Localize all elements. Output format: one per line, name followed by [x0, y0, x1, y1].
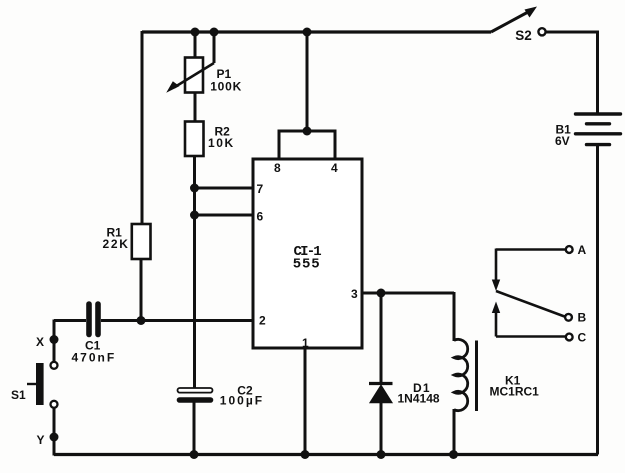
resistor R1	[132, 224, 151, 259]
node top rail vcc	[303, 28, 312, 37]
wire P1 wiper vertical	[213, 31, 216, 63]
wire S1 branch vertical	[53, 320, 56, 362]
wire relay coil bottom to rail	[453, 409, 456, 456]
battery B1	[576, 114, 621, 145]
node pin7 junction	[190, 184, 199, 193]
svg-text:B: B	[578, 311, 587, 325]
svg-text:1N4148: 1N4148	[398, 392, 440, 406]
wire bottom rail	[54, 453, 598, 456]
wire D1 bottom lead	[380, 402, 383, 456]
svg-text:470nF: 470nF	[72, 351, 117, 365]
IC CI-1 555 timer box	[253, 159, 362, 348]
potentiometer P1	[185, 58, 203, 93]
node X	[50, 335, 59, 344]
wire vcc drop to bracket	[306, 31, 309, 131]
svg-text:S1: S1	[11, 388, 26, 402]
svg-text:Y: Y	[37, 433, 45, 447]
wire R2 down through pins 7,6 to C2	[193, 155, 196, 388]
relay core bar	[475, 341, 478, 412]
wire battery to bottom right corner	[596, 146, 599, 455]
svg-text:MC1RC1: MC1RC1	[490, 385, 540, 399]
wire bracket over pins 8 and 4	[279, 131, 335, 159]
capacitor C1	[89, 304, 98, 335]
svg-text:100µF: 100µF	[220, 394, 264, 408]
svg-text:C: C	[578, 331, 587, 345]
terminal C	[566, 334, 573, 341]
svg-text:100K: 100K	[210, 80, 242, 94]
wire pin3 to relay corner	[362, 292, 454, 295]
svg-text:1: 1	[302, 336, 309, 350]
wire S2 to battery	[546, 32, 598, 113]
node K1 ground junction	[449, 450, 458, 459]
svg-text:555: 555	[293, 257, 321, 273]
wire left rail	[141, 31, 144, 224]
relay moving contact diagonal	[496, 291, 565, 317]
svg-text:10K: 10K	[208, 136, 235, 150]
node bracket junction	[303, 127, 312, 136]
svg-text:X: X	[36, 335, 44, 349]
wire R1 bottom lead	[140, 259, 143, 320]
wire P1 to R2	[194, 92, 197, 122]
node pin3/D1 junction	[377, 289, 386, 298]
switch S2 blade	[491, 12, 529, 33]
relay contact C wire	[496, 335, 566, 338]
relay coil K1	[454, 339, 468, 410]
wire pin7	[194, 187, 253, 190]
svg-text:2: 2	[259, 314, 266, 328]
resistor R2	[185, 122, 204, 157]
svg-text:22K: 22K	[103, 237, 130, 251]
relay contact arm from A	[496, 248, 566, 251]
node top rail wiper	[210, 28, 219, 37]
svg-text:4: 4	[331, 161, 338, 175]
svg-text:7: 7	[257, 182, 264, 196]
wire top rail	[142, 30, 491, 33]
terminal A	[566, 246, 573, 253]
svg-text:S2: S2	[515, 28, 532, 43]
diode D1	[369, 382, 393, 385]
svg-text:6: 6	[257, 210, 264, 224]
wire pin2 horizontal left of C1	[54, 319, 86, 322]
node pin1 ground junction	[301, 450, 310, 459]
capacitor C2 (electrolytic)	[178, 388, 213, 393]
pushbutton S1	[51, 362, 58, 369]
wire relay branch down	[453, 292, 456, 341]
terminal B	[565, 314, 572, 321]
svg-text:8: 8	[274, 161, 281, 175]
svg-text:6V: 6V	[555, 134, 570, 148]
node Y	[50, 433, 59, 442]
node C2 ground junction	[190, 450, 199, 459]
wire pin1 to bottom rail	[304, 348, 307, 455]
relay arm arrow up toward B	[495, 308, 498, 337]
node D1 ground junction	[377, 450, 386, 459]
svg-text:3: 3	[351, 287, 358, 301]
wire S1 lower vertical	[53, 408, 56, 456]
node pin6 junction	[190, 211, 199, 220]
wire pin2 horizontal C1 to IC	[101, 319, 253, 322]
wire P1 top lead	[194, 31, 197, 58]
switch S2 terminal circle	[538, 28, 545, 35]
node R1/C1 junction	[137, 316, 146, 325]
wire C2 bottom to rail	[193, 402, 196, 455]
wire D1 top lead	[380, 292, 383, 382]
node top rail P1	[191, 28, 200, 37]
wire pin6	[194, 214, 253, 217]
svg-text:A: A	[578, 243, 587, 257]
